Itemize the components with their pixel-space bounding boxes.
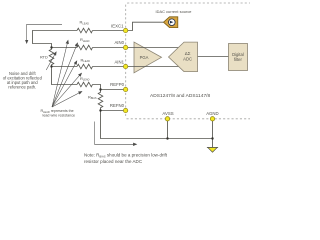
- pin IEXC1: [123, 28, 127, 32]
- junction REFP0: [99, 88, 101, 90]
- RTD variable arrow: [46, 52, 56, 70]
- annotation fan arrow 2b: [52, 61, 77, 107]
- svg-text:RTD: RTD: [40, 56, 48, 60]
- pin AVSS: [165, 117, 169, 121]
- wire IEXC1 row left with jog to RTD top: [33, 31, 78, 48]
- svg-text:lead wire resistance: lead wire resistance: [43, 114, 76, 118]
- resistor RLEAD4: [77, 82, 92, 87]
- ADC chip dashed boundary bottom edge: [127, 118, 251, 120]
- svg-text:AIN1: AIN1: [114, 59, 124, 64]
- svg-text:RLEAD: RLEAD: [80, 37, 90, 43]
- annotation fan arrow 3: [52, 73, 82, 107]
- resistor RLEAD3: [77, 64, 92, 69]
- wire REFN0 to ground rail: [101, 111, 213, 139]
- resistor RLEAD1: [77, 28, 92, 33]
- svg-text:RLEAD: RLEAD: [81, 57, 91, 63]
- wire AIN0 row: [52, 47, 179, 49]
- annotation fan arrow 1: [52, 40, 68, 107]
- pin AGND: [210, 117, 214, 121]
- wire IEXC1 to IDAC: [126, 22, 164, 30]
- pin AIN0: [123, 45, 127, 49]
- wire ADC to digital filter: [198, 56, 229, 58]
- svg-text:ADC: ADC: [183, 56, 192, 61]
- svg-text:ADS1247/8 and ADS1147/8: ADS1247/8 and ADS1147/8: [150, 93, 211, 99]
- ground symbol: [207, 147, 218, 149]
- svg-text:reference path.: reference path.: [8, 84, 36, 89]
- junction AGND rail: [211, 137, 213, 139]
- resistor RBIAS: [98, 90, 103, 111]
- svg-text:RLEAD: RLEAD: [80, 76, 90, 82]
- svg-text:REFP0: REFP0: [110, 82, 124, 87]
- wire RTD bottom to REFP0 row: [52, 67, 78, 85]
- wire AVSS drop: [167, 119, 169, 139]
- IDAC current source symbol: [164, 17, 178, 28]
- PGA U1 amplifier triangle: [134, 42, 162, 73]
- wire AIN1 row: [52, 66, 179, 68]
- RTD sensor: [49, 48, 54, 67]
- annotation fan arrow 2: [52, 43, 78, 107]
- pin REFN0: [123, 108, 127, 112]
- svg-text:ΔΣ: ΔΣ: [185, 51, 191, 56]
- svg-text:IEXC1: IEXC1: [111, 24, 124, 29]
- digital filter block: [229, 44, 248, 71]
- pin REFP0: [123, 87, 127, 91]
- wire AGND drop: [212, 119, 214, 148]
- wire IEXC1 row right: [93, 30, 126, 32]
- wire REFN0 row: [101, 110, 126, 112]
- svg-text:IDAC current source: IDAC current source: [156, 9, 192, 14]
- svg-text:filter: filter: [234, 57, 243, 62]
- junction AVSS rail: [166, 137, 168, 139]
- svg-text:AVSS: AVSS: [162, 111, 173, 116]
- wire REFP0 jog: [93, 85, 126, 90]
- svg-text:RBIAS: RBIAS: [88, 94, 97, 100]
- svg-text:PGA: PGA: [140, 55, 149, 60]
- junction REFN0: [99, 109, 101, 111]
- ADC chip dashed boundary: [126, 3, 250, 116]
- svg-text:RLEAD: RLEAD: [80, 20, 90, 26]
- svg-text:AGND: AGND: [206, 111, 218, 116]
- op-amp ADC pentagon U2: [169, 42, 198, 72]
- junction RTD top: [50, 46, 52, 48]
- svg-text:Digital: Digital: [232, 52, 244, 57]
- current direction arrow top-left: [27, 24, 62, 43]
- pin AIN1: [123, 64, 127, 68]
- svg-text:REFN0: REFN0: [110, 103, 125, 108]
- svg-text:AIN0: AIN0: [114, 40, 124, 45]
- svg-text:resistor placed near the ADC: resistor placed near the ADC: [84, 159, 143, 164]
- annotation fan arrow 4: [52, 92, 82, 108]
- junction RTD bottom: [50, 65, 52, 67]
- resistor RLEAD2: [77, 45, 92, 50]
- svg-text:Note: RBIAS should be a precis: Note: RBIAS should be a precision low-dr…: [84, 153, 168, 159]
- current direction arrow bottom: [95, 122, 137, 145]
